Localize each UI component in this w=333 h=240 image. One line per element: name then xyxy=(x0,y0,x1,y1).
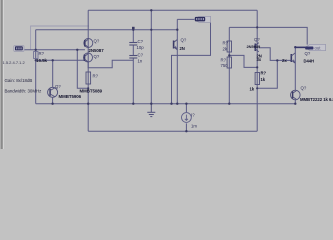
wire comp column x133.3 xyxy=(132,30,134,104)
svg-text:1k: 1k xyxy=(250,87,255,92)
wire tail x77.3 xyxy=(77,50,88,89)
svg-text:MMBT5906: MMBT5906 xyxy=(59,94,82,99)
capacitor C1 xyxy=(129,43,137,46)
resistor R1 divider xyxy=(34,52,38,59)
svg-text:2N: 2N xyxy=(180,46,185,51)
port out2 top middle xyxy=(195,16,211,22)
net tick above comp column xyxy=(132,27,135,29)
svg-text:R?: R? xyxy=(221,58,227,63)
ground symbol x151.3 xyxy=(147,104,155,117)
resistor R2 xyxy=(86,72,91,84)
svg-text:I?: I? xyxy=(191,113,195,118)
transistor Q1 xyxy=(84,39,93,48)
wire mirror bottom stub xyxy=(52,97,54,103)
wire driver stub xyxy=(261,48,292,61)
wire top rail VCC xyxy=(88,9,257,11)
wire top right y27.4 xyxy=(229,27,307,44)
wire emitter step xyxy=(88,60,133,68)
wire current source stubs xyxy=(185,104,187,132)
wire mirror base drop x53 xyxy=(52,60,54,87)
resistor R5 xyxy=(255,73,259,85)
svg-text:C?: C? xyxy=(138,53,144,58)
wire right column x257 xyxy=(256,10,258,131)
port out right xyxy=(295,44,325,50)
svg-text:1m: 1m xyxy=(191,124,197,129)
svg-text:10p: 10p xyxy=(137,45,145,50)
left window edge strips xyxy=(0,0,1,149)
wire bottom rail VEE xyxy=(88,130,257,132)
svg-text:D44H: D44H xyxy=(304,59,315,64)
wire long feedback y29.7 xyxy=(36,29,178,31)
svg-text:Q?: Q? xyxy=(94,54,100,59)
svg-text:Q?: Q? xyxy=(55,84,61,89)
svg-text:Q?: Q? xyxy=(305,51,311,56)
svg-text:Bandwidth: 30MHz: Bandwidth: 30MHz xyxy=(5,89,42,94)
wire vbe tap xyxy=(257,60,277,88)
wire VAS column x177.3 xyxy=(176,19,178,103)
svg-text:3x: 3x xyxy=(257,57,262,62)
svg-text:16.5k: 16.5k xyxy=(36,58,48,63)
svg-text:R?: R? xyxy=(223,41,229,46)
svg-text:C?: C? xyxy=(138,39,144,44)
port in xyxy=(14,46,24,52)
wire bias column x229.3 xyxy=(228,27,230,103)
wire VAS port stub xyxy=(177,18,210,20)
svg-text:Gain: 8x/18dB: Gain: 8x/18dB xyxy=(5,78,33,83)
wire mid vertical x151.3 xyxy=(150,10,152,103)
transistor Q7 output xyxy=(291,53,295,63)
svg-text:Q?: Q? xyxy=(254,37,260,42)
resistor R4 xyxy=(227,57,231,68)
resistor R3 xyxy=(227,41,231,52)
svg-text:2N5087: 2N5087 xyxy=(89,48,105,53)
svg-text:MMBT5089: MMBT5089 xyxy=(80,89,103,94)
svg-text:750: 750 xyxy=(221,63,229,68)
svg-text:Q?: Q? xyxy=(181,38,187,43)
svg-text:MMBT2222 1k 6.8: MMBT2222 1k 6.8 xyxy=(300,97,333,102)
wire output node xyxy=(295,46,305,48)
wire left diffpair column x88 xyxy=(87,10,89,131)
wire H2 y60.3 xyxy=(36,59,84,61)
wire ghost outer corner light xyxy=(31,26,89,50)
svg-text:1n: 1n xyxy=(138,59,143,64)
wire bias link xyxy=(229,55,257,67)
wire mid rail y103.7 xyxy=(36,103,296,105)
wire input H1 y49.8 xyxy=(25,49,86,51)
svg-text:1.5.2.4.7.1.2: 1.5.2.4.7.1.2 xyxy=(3,60,26,65)
svg-text:R?: R? xyxy=(93,74,99,79)
capacitor C2 xyxy=(129,56,137,59)
transistor Q2 xyxy=(84,53,93,62)
transistor Q8 xyxy=(291,90,301,100)
wire output column x295.3 xyxy=(294,47,296,103)
svg-text:out: out xyxy=(315,45,322,50)
transistor Q5 driver xyxy=(255,43,260,52)
svg-text:R?: R? xyxy=(39,51,45,56)
transistor Q3 mirror xyxy=(48,87,58,97)
transistor Q4 VAS xyxy=(174,40,178,50)
wire left column x35.7 xyxy=(35,30,37,104)
current source I1 xyxy=(182,113,192,123)
svg-text:R?: R? xyxy=(261,71,267,76)
svg-text:1k: 1k xyxy=(261,77,266,82)
svg-text:2N5089: 2N5089 xyxy=(247,44,262,49)
svg-text:2x: 2x xyxy=(282,58,287,63)
svg-text:Q?: Q? xyxy=(301,86,307,91)
wire out2 feedback drop xyxy=(172,19,211,103)
svg-text:Q?: Q? xyxy=(94,39,100,44)
